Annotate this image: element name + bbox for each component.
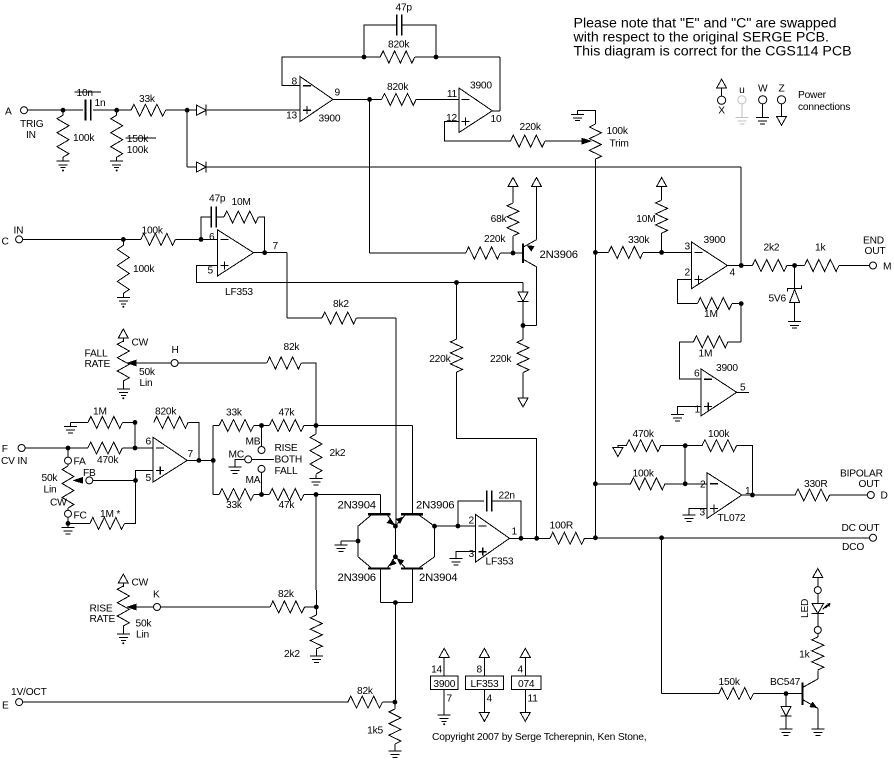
wire 68k lead [512, 236, 514, 253]
pad H [171, 360, 178, 367]
wire 8k2 vertical to cluster [395, 318, 397, 526]
wire cluster to pin2 row [435, 525, 476, 527]
wire 100R to trim vert end [585, 537, 596, 539]
svg-text:8: 8 [477, 665, 483, 676]
pad MA [258, 465, 265, 472]
svg-text:100k: 100k [633, 469, 655, 480]
chip LF353 +rail [479, 648, 489, 657]
wire 1k to pad M [839, 265, 870, 267]
transistor Q3 2N3906 bar (top-right) [401, 513, 423, 515]
wire to 100k in [595, 483, 631, 485]
wire U2b out [510, 537, 522, 539]
resistor 820k interstage [382, 93, 417, 105]
wire base into Q6 [786, 693, 803, 695]
wire zener to ground [794, 303, 796, 318]
resistor 82k H [267, 357, 301, 369]
svg-text:3900: 3900 [470, 80, 492, 91]
junction 10M node [659, 250, 664, 255]
svg-text:MB: MB [246, 437, 261, 448]
wire 82k K to node [305, 606, 317, 608]
svg-text:47k: 47k [279, 408, 296, 419]
pad C (IN) [16, 236, 23, 243]
cluster bottom join [380, 602, 412, 604]
U5 plus [156, 467, 164, 475]
svg-text:220k: 220k [520, 122, 542, 133]
U1b minus [462, 98, 470, 100]
resistor 1M F [88, 416, 123, 428]
wire FA stem [67, 448, 69, 457]
wire 100k fb to output [737, 446, 753, 495]
resistor 82k K [270, 601, 305, 613]
svg-text:3900: 3900 [716, 363, 738, 374]
U4 minus [710, 483, 718, 485]
LED diode [812, 604, 825, 614]
resistor 47k fall [269, 489, 304, 501]
svg-text:2N3906: 2N3906 [416, 500, 454, 512]
positive rail above 68k [508, 178, 518, 187]
wire pin3 to ground [689, 509, 707, 512]
svg-text:10n: 10n [77, 88, 93, 99]
wire K row [160, 606, 270, 608]
wire pin5 row to diode D3 [457, 282, 524, 284]
svg-text:RISE: RISE [275, 443, 298, 454]
svg-text:5: 5 [146, 473, 152, 484]
chip 3900 +rail [439, 648, 449, 657]
wire out to 2k2 [741, 265, 752, 267]
svg-text:13: 13 [286, 111, 297, 122]
pad FA [65, 457, 72, 464]
junction E node [393, 700, 398, 705]
resistor 33k fall [219, 489, 254, 501]
wire 1M gnd lead [70, 421, 88, 423]
wire cap to 10M [216, 216, 224, 218]
wire base into Q1 [513, 252, 523, 254]
wire 150k to base node [753, 693, 786, 695]
wire output riser U2a [499, 57, 501, 111]
wire LED branch down [661, 538, 663, 694]
ground at trim top [571, 110, 584, 120]
svg-text:7: 7 [273, 241, 279, 252]
wire diode to gnd [785, 716, 787, 725]
wire trim vert to 100k in [594, 252, 596, 483]
svg-text:14: 14 [431, 665, 442, 676]
wire cap-diode lead [785, 694, 787, 707]
svg-text:MC: MC [229, 450, 244, 461]
wire out to row vert [199, 459, 213, 461]
resistor 330R [795, 489, 830, 501]
wire node down to D2 row [186, 110, 188, 167]
svg-text:3900: 3900 [704, 235, 726, 246]
wire wiper to H pad [136, 362, 172, 364]
junction trim/330k [593, 250, 598, 255]
cluster right vertical [434, 526, 436, 557]
junction FC gnd [66, 521, 71, 526]
svg-text:82k: 82k [357, 686, 374, 697]
Q4 emitter diagonal [388, 557, 396, 568]
U1a minus [303, 85, 311, 87]
wire wiper to K pad [136, 606, 154, 608]
svg-text:1k5: 1k5 [367, 726, 383, 737]
potentiometer 50k RISE RATE [117, 586, 129, 626]
svg-text:OUT: OUT [865, 246, 886, 257]
svg-text:1M *: 1M * [100, 509, 120, 520]
ground Q6 emitter [811, 725, 824, 735]
resistor 1k end out [805, 260, 840, 272]
svg-text:47p: 47p [396, 3, 413, 14]
wire 1M to out vert [732, 303, 741, 305]
wire into pin 2 [685, 483, 707, 485]
fall pot top lead [122, 338, 124, 342]
wire down to D3 [522, 283, 524, 292]
junction U5 out fb [197, 458, 202, 463]
svg-text:X: X [718, 105, 725, 116]
wire lead 100k shunt 2 [116, 110, 118, 115]
transistor Q4 2N3906 bar (bottom-left) [368, 567, 390, 569]
wire D1 to op-amp pin13 [207, 109, 300, 111]
svg-text:Z: Z [778, 84, 784, 95]
resistor 68k [507, 203, 519, 236]
resistor 470k F [88, 442, 123, 454]
svg-text:CV IN: CV IN [1, 456, 27, 467]
positive rail above Q1 [532, 178, 542, 187]
chip power 074 box [512, 676, 541, 690]
wire U3b pin1 to ground [678, 407, 702, 411]
svg-text:CW: CW [132, 578, 149, 589]
MB stem [261, 426, 263, 447]
resistor 330k [609, 246, 644, 258]
junction MB [259, 423, 264, 428]
Q1 emitter arrow (PNP) [527, 245, 535, 251]
junction cluster bottom [393, 554, 398, 559]
op-amp U3a 3900 [692, 242, 728, 289]
wire U4 out [742, 494, 753, 496]
ground under C shunt [117, 293, 130, 307]
junction 1M/out vert [739, 301, 744, 306]
cluster left vertical [357, 526, 359, 557]
junction cap/R100k-2/33k [114, 108, 119, 113]
svg-text:CW: CW [132, 338, 149, 349]
chip power 3900 box [431, 676, 459, 690]
cluster center vertical [394, 526, 396, 557]
junction 2k2 A [314, 423, 319, 428]
resistor 10M pullup [656, 200, 668, 233]
ground under zener [788, 318, 801, 328]
row RISE to base TR [316, 425, 413, 427]
wire 220k branch lead up [456, 283, 458, 340]
resistor 150k [719, 688, 754, 700]
svg-text:3: 3 [685, 242, 691, 253]
svg-text:RATE: RATE [85, 359, 111, 370]
wire lead 220k below D3 [522, 326, 524, 340]
U2a minus [221, 238, 229, 240]
wire lead 50k F top [67, 464, 69, 466]
junction K node [314, 605, 319, 610]
svg-text:1: 1 [512, 527, 518, 538]
svg-text:100k: 100k [708, 429, 730, 440]
op-amp U1a 3900 [300, 77, 333, 122]
svg-text:2: 2 [700, 480, 706, 491]
wire DC row [595, 537, 661, 539]
svg-text:LED: LED [800, 599, 811, 618]
ground MC [229, 463, 242, 473]
junction pin2 node [683, 481, 688, 486]
CW arrow fall pot [118, 329, 128, 338]
junction fb right [434, 55, 439, 60]
svg-text:Lin: Lin [140, 378, 153, 389]
pad D (BIPOLAR OUT) [867, 492, 874, 499]
wire zener lead [794, 266, 796, 289]
wire pin5 loop [196, 266, 456, 283]
legend u ground [735, 114, 748, 124]
U3b plus [704, 403, 712, 411]
junction F node [66, 446, 71, 451]
pad A (TRIG IN) [21, 107, 28, 114]
ground at 1M F [64, 422, 77, 432]
pad FC [65, 510, 72, 517]
row FALL to base TL [316, 494, 380, 496]
wire node to collector leg [523, 325, 537, 327]
resistor 220k base [466, 247, 500, 259]
wire 10M top lead [661, 187, 663, 201]
wire U2a out [254, 252, 265, 254]
svg-text:33k: 33k [226, 408, 243, 419]
svg-text:4: 4 [518, 665, 524, 676]
svg-text:150k: 150k [127, 134, 149, 145]
svg-text:MA: MA [246, 475, 261, 486]
resistor 2k2 rise [310, 434, 322, 474]
wire pin3 gnd U2b [456, 552, 476, 555]
pad DCO (DC OUT) [870, 534, 877, 541]
fall pot wiper arrow [126, 360, 137, 367]
svg-text:8k2: 8k2 [333, 299, 349, 310]
svg-text:9: 9 [335, 88, 341, 99]
svg-text:11: 11 [447, 89, 458, 100]
LED light arrow [823, 604, 831, 610]
resistor 100k input shunt 2 [111, 115, 123, 157]
op-amp U4 TL072 [707, 473, 742, 519]
svg-text:470k: 470k [633, 429, 655, 440]
resistor 1k LED [812, 637, 824, 670]
transistor Q6 BC547 bar [801, 682, 803, 704]
wire F node to 470k [68, 447, 88, 449]
junction F pin6 node [133, 446, 138, 451]
capacitor 47p integrator [211, 207, 216, 228]
chip 074 -rail [520, 712, 530, 721]
wire node to cap [63, 109, 83, 111]
wire DC row to pad [662, 537, 870, 539]
ground at U3b pin1 [671, 411, 684, 421]
svg-text:E: E [2, 701, 9, 712]
wire FC to gnd node [67, 517, 69, 524]
row B to 47k [262, 494, 270, 496]
vertical joining rows [212, 426, 214, 495]
svg-text:2N3904: 2N3904 [338, 500, 376, 512]
svg-text:100k: 100k [133, 264, 155, 275]
svg-text:3900: 3900 [319, 114, 341, 125]
legend X stem [721, 88, 723, 96]
transistor Q1 2N3906 bar [522, 244, 524, 264]
svg-text:C: C [2, 237, 9, 248]
svg-text:11: 11 [528, 694, 539, 705]
wire trim vert bottom [594, 484, 596, 538]
wire 1M to node [123, 421, 135, 423]
svg-text:1M: 1M [699, 349, 713, 360]
wire 10M bottom lead [661, 233, 663, 252]
svg-text:2: 2 [469, 516, 475, 527]
pad LED upper [814, 587, 821, 594]
svg-text:820k: 820k [155, 407, 177, 418]
ground at U4 pin3 [682, 511, 695, 521]
row A end [304, 425, 316, 427]
strike-through on 10n [75, 91, 102, 93]
positive rail above 10M [657, 178, 667, 187]
svg-text:6: 6 [146, 437, 152, 448]
wire 1M2 to pin 6 [680, 342, 702, 379]
svg-text:4: 4 [730, 268, 736, 279]
wire node to 100k fb [685, 445, 702, 447]
base BL vertical [379, 569, 381, 603]
resistor 33k rise [219, 420, 254, 432]
svg-text:BOTH: BOTH [275, 455, 303, 466]
pad K [154, 604, 161, 611]
svg-text:TRIG: TRIG [20, 119, 44, 130]
svg-text:50k: 50k [136, 619, 153, 630]
junction FB node [133, 478, 138, 483]
svg-text:Copyright 2007 by Serge Tchere: Copyright 2007 by Serge Tcherepnin, Ken … [432, 732, 646, 743]
chip LF353 stem up [483, 657, 485, 676]
chip power LF353 box [466, 676, 504, 690]
diode D2 [197, 162, 207, 173]
wire U3a out [727, 265, 741, 267]
resistor 100k feedback TL072 [702, 440, 737, 452]
junction D3 node [521, 323, 526, 328]
wire 820k to pin 11 [416, 98, 459, 100]
wire 330k to 10M node [643, 251, 662, 253]
wire corner down to 8k2 [286, 253, 288, 318]
svg-text:330R: 330R [804, 479, 828, 490]
U3a plus [695, 275, 703, 283]
U2b minus [479, 525, 487, 527]
ground cluster [335, 541, 348, 551]
svg-text:CW: CW [50, 498, 67, 509]
op-amp U5 (1/2) [153, 437, 187, 482]
pad F (CV IN) [18, 445, 25, 452]
Q6 emitter arrow (NPN) [809, 702, 817, 709]
pad MB [258, 447, 265, 454]
svg-text:RATE: RATE [90, 614, 116, 625]
svg-text:2: 2 [685, 268, 691, 279]
wire node down to pin6 row [134, 422, 136, 448]
svg-text:2N3904: 2N3904 [419, 572, 457, 584]
pad M (END OUT) [870, 262, 877, 269]
op-amp U2a LF353 [218, 230, 254, 276]
junction 1M/820k [133, 420, 138, 425]
chip LF353 -rail [479, 712, 489, 721]
svg-text:820k: 820k [387, 82, 409, 93]
wire FB to node [93, 479, 136, 481]
svg-text:4: 4 [487, 694, 493, 705]
junction U2a out [262, 250, 267, 255]
resistor 100k input shunt 1 [57, 115, 69, 157]
resistor 100k C series [141, 233, 176, 245]
svg-text:100R: 100R [550, 521, 574, 532]
pad E (1V/OCT) [16, 699, 23, 706]
wire D2 row to feedback vertical [207, 166, 741, 168]
legend u circle (unused, gray) [738, 96, 746, 104]
svg-text:10M: 10M [636, 214, 655, 225]
wire base row from integrator fb [369, 99, 371, 253]
legend X circle [718, 96, 726, 104]
svg-text:Lin: Lin [44, 485, 57, 496]
svg-text:3900: 3900 [433, 679, 455, 690]
svg-text:10: 10 [491, 114, 502, 125]
junction cluster right [432, 524, 437, 529]
svg-text:330k: 330k [628, 235, 650, 246]
wire to 100R [537, 537, 550, 539]
negative rail at 470k [613, 448, 623, 457]
junction dc node [534, 536, 539, 541]
junction U3a out [739, 263, 744, 268]
junction pin2 22n [456, 524, 461, 529]
Q6 emitter vertical [817, 708, 819, 725]
wire 820k to right node [415, 56, 436, 58]
wire to 8k2 [287, 317, 322, 319]
wire FC node to 1M* [68, 522, 90, 524]
ground FC [62, 523, 75, 533]
wire node to D1 [187, 109, 197, 111]
wire out to dc node [521, 537, 537, 539]
op-amp U1b 3900 [459, 88, 493, 133]
wire U1a output [333, 98, 370, 100]
capacitor 47p [397, 15, 402, 36]
Q3 right diagonal [420, 515, 435, 526]
wire base row horizontal [370, 252, 466, 254]
svg-text:100k: 100k [142, 226, 164, 237]
chip 074 stem down [524, 690, 526, 713]
junction 22n out [519, 536, 524, 541]
junction fb left [362, 55, 367, 60]
wire 2k2 to zener node [787, 265, 795, 267]
legend Z stem [781, 104, 783, 117]
wire 47p2 branch [201, 217, 211, 239]
junction C shunt [121, 237, 126, 242]
diode at BC547 base [781, 707, 792, 717]
svg-text:D: D [881, 491, 888, 502]
wire cluster gnd stub [341, 540, 358, 542]
svg-text:2k2: 2k2 [330, 448, 346, 459]
Q3 emitter diagonal [395, 515, 404, 526]
diode D3 [518, 292, 529, 302]
ground 2k2 fall [310, 652, 323, 662]
junction U4 out [750, 493, 755, 498]
CW arrow rise pot [118, 574, 128, 583]
wire out vert to 1M2 row [740, 304, 742, 342]
wire E row [22, 701, 348, 703]
wire 33k to diode node [166, 109, 188, 111]
chip 3900 stem down [443, 690, 445, 711]
resistor 1M* F [90, 517, 125, 529]
wire pin5 loop U5 [136, 471, 154, 481]
ground fall pot [117, 385, 130, 399]
wire 820k to out [188, 422, 199, 460]
junction cluster gnd [356, 539, 361, 544]
svg-text:TL072: TL072 [718, 513, 746, 524]
svg-text:150k: 150k [719, 677, 741, 688]
wire 220k to neg arrow [522, 373, 524, 399]
wire MC to ground [235, 459, 245, 463]
svg-text:220k: 220k [484, 234, 506, 245]
wire collector leg up [536, 267, 538, 326]
